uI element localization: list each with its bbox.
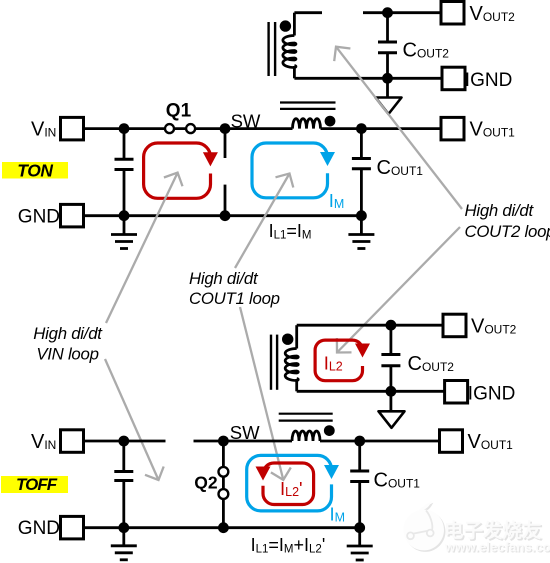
- wire VIN rail to open Q1 gap (bottom): [84, 440, 166, 443]
- svg-text:Q2: Q2: [194, 473, 218, 493]
- loop VIN red (TON): [144, 143, 211, 198]
- svg-text:SW: SW: [231, 111, 261, 132]
- transformer core lines (top): [267, 22, 269, 76]
- svg-text:High di/dt: High di/dt: [33, 324, 103, 343]
- svg-text:COUT1 loop: COUT1 loop: [189, 289, 280, 308]
- capacitor COUT1 (top): [360, 129, 363, 159]
- L1 polarity dot (bottom): [324, 425, 335, 436]
- svg-text:TOFF: TOFF: [16, 475, 58, 494]
- L1 polarity dot (top): [325, 116, 336, 127]
- junction dots bottom rail (bottom): [118, 522, 129, 533]
- inductor L1 core bars (bottom): [279, 413, 333, 415]
- wire winding to VOUT2 (bottom, closed): [297, 324, 443, 327]
- arrow on red VIN loop: [203, 152, 218, 166]
- pin VIN (bottom): [61, 430, 84, 453]
- capacitor COUT1 (bottom): [358, 441, 361, 471]
- node VOUT1 junction dot (bottom): [354, 436, 365, 447]
- wire winding top to open diode (gap): [294, 11, 322, 14]
- node VIN junction dot (top): [119, 123, 130, 134]
- svg-text:SW: SW: [230, 422, 260, 443]
- junction dots bottom rail (top): [119, 210, 130, 221]
- arrow on IL2 loop: [355, 344, 370, 358]
- node COUT2 top junction dot: [382, 7, 393, 18]
- pin VOUT2 (bottom): [443, 314, 466, 337]
- wire to VOUT2 (top): [363, 11, 441, 14]
- wire L1 to VOUT1 (bottom): [320, 440, 440, 443]
- ground below COUT1 (bottom): [358, 528, 361, 546]
- node VOUT1 junction dot (top): [356, 123, 367, 134]
- capacitor COUT2 (top): [386, 13, 389, 42]
- wire IGND rail (bottom): [297, 390, 445, 393]
- transformer polarity dot (bottom): [282, 334, 293, 345]
- ground below COUT1 (top): [360, 216, 363, 235]
- loop IL2 red (bottom aux): [315, 340, 362, 381]
- arrow on IL2-prime loop: [256, 467, 271, 481]
- node IGND junction dot (bottom): [386, 386, 397, 397]
- svg-text:www.elecfans.com: www.elecfans.com: [444, 540, 550, 555]
- IGND triangle ground (top): [386, 78, 389, 97]
- TOFF state label highlight: [1, 476, 68, 493]
- capacitor CIN (top): [123, 129, 126, 160]
- node VIN junction dot (bottom): [118, 436, 129, 447]
- inductor L1 (bottom): [292, 431, 320, 441]
- leader arrow to TON VIN loop: [106, 173, 178, 323]
- svg-text:High di/dt: High di/dt: [189, 269, 259, 288]
- wire VIN to Q1 (top rail): [84, 127, 166, 130]
- node IGND junction dot (top): [382, 73, 393, 84]
- transformer secondary winding (top): [293, 13, 296, 36]
- wire IGND rail (top): [294, 77, 442, 80]
- inductor L1 core bars (top): [280, 101, 336, 103]
- loop IM blue (TON): [252, 143, 328, 198]
- transformer core lines (bottom): [270, 335, 272, 390]
- pin VIN (top): [61, 117, 84, 139]
- pin IGND (bottom): [445, 381, 468, 404]
- leader arrow to TOFF IL2 loop: [337, 227, 460, 353]
- transformer polarity dot (top): [280, 20, 291, 31]
- switch Q2 closed (bottom): [222, 441, 225, 528]
- svg-text:IGND: IGND: [465, 70, 513, 91]
- wire bottom rail (bottom circuit): [84, 526, 360, 529]
- leader arrow to TOFF IL2-prime loop: [240, 307, 283, 480]
- pin VOUT1 (bottom): [440, 430, 463, 453]
- node SW dot (top): [220, 123, 231, 134]
- svg-text:IGND: IGND: [468, 384, 516, 405]
- capacitor CIN (bottom): [122, 441, 125, 472]
- inductor L1 (top): [293, 119, 321, 129]
- IGND triangle ground (bottom): [389, 391, 392, 411]
- leader arrow to TON COUT1/IM loop: [235, 174, 290, 269]
- ground below CIN (bottom): [122, 528, 125, 546]
- pin IGND (top): [442, 67, 465, 90]
- pin VOUT2 (top): [441, 2, 464, 25]
- svg-text:GND: GND: [18, 518, 60, 539]
- TON state label highlight: [2, 162, 68, 179]
- svg-text:GND: GND: [18, 207, 60, 228]
- wire gap to SW (bottom): [194, 440, 293, 443]
- loop IL2-prime red (TOFF): [263, 463, 314, 505]
- svg-text:COUT2 loop: COUT2 loop: [465, 222, 550, 241]
- wire bottom rail (top circuit): [84, 214, 362, 217]
- leader arrow to TOFF VIN loop: [105, 359, 159, 480]
- pin GND (top): [61, 204, 84, 227]
- transformer secondary winding (bottom): [295, 325, 298, 348]
- wire Q1 to SW: [195, 127, 293, 130]
- switch Q2 open vertical (top, below SW): [224, 129, 227, 158]
- pin GND (bottom): [61, 516, 84, 539]
- arrow on blue IM loop (top): [320, 152, 335, 166]
- loop IM blue (TOFF): [247, 455, 332, 511]
- svg-text:VIN loop: VIN loop: [36, 345, 98, 364]
- capacitor COUT2 (bottom): [389, 325, 392, 354]
- wire L1 to VOUT1 (top): [321, 127, 442, 130]
- leader arrow to TON COUT2 open loop: [336, 47, 462, 209]
- node SW dot (bottom): [218, 436, 229, 447]
- svg-text:TON: TON: [17, 160, 53, 180]
- watermark elecfans logo: [404, 501, 446, 552]
- switch Q1 (closed): [165, 127, 195, 130]
- svg-text:High di/dt: High di/dt: [465, 201, 535, 220]
- ground below CIN (top): [123, 216, 126, 235]
- arrow on blue IM loop (bottom): [324, 465, 339, 479]
- pin VOUT1 (top): [441, 117, 464, 139]
- svg-text:Q1: Q1: [166, 101, 192, 122]
- node COUT2 top junction dot (bottom): [386, 320, 397, 331]
